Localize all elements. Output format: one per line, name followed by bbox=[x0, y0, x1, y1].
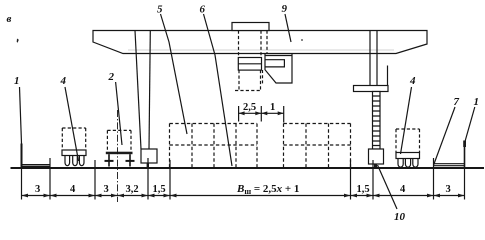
left leg bbox=[135, 31, 141, 150]
trolley dashed vertical mid bbox=[260, 31, 262, 58]
svg-text:7: 7 bbox=[454, 96, 460, 108]
right container stack (dashed) bbox=[284, 124, 353, 168]
stray dot near 9 bbox=[301, 39, 303, 41]
rail wagon axles bbox=[105, 160, 114, 162]
left truck bed bbox=[62, 150, 86, 156]
svg-text:Вш = 2,5х + 1: Вш = 2,5х + 1 bbox=[236, 183, 299, 196]
svg-text:4: 4 bbox=[409, 75, 416, 87]
right leg bbox=[369, 31, 371, 86]
left leg rail stub bbox=[147, 163, 149, 168]
right leg foot block 10 bbox=[369, 149, 384, 164]
witness lines for bottom dimensions bbox=[21, 168, 23, 200]
dashed line beside hook bbox=[262, 70, 264, 84]
trolley dashed vertical left bbox=[238, 31, 240, 58]
trolley dashed vertical right bbox=[266, 31, 268, 54]
main dimension line bbox=[22, 195, 465, 197]
svg-text:4: 4 bbox=[400, 184, 406, 195]
leader line 10 bbox=[378, 165, 398, 209]
trolley cab on girder bbox=[232, 23, 269, 31]
right leg screw column with rungs bbox=[373, 92, 381, 150]
svg-text:6: 6 bbox=[200, 4, 206, 16]
svg-text:1: 1 bbox=[474, 96, 480, 108]
leader line 1 left bbox=[20, 87, 22, 144]
svg-text:1: 1 bbox=[14, 75, 20, 87]
leader line 7 bbox=[434, 107, 455, 165]
right leg cylinder line bbox=[387, 66, 389, 86]
leader line 9 bbox=[285, 14, 291, 42]
girder 9 (bridge beam outline) bbox=[93, 31, 427, 54]
hoist block upper position bbox=[238, 58, 261, 71]
leader line 4 left bbox=[65, 87, 79, 161]
svg-text:4: 4 bbox=[60, 75, 67, 87]
rail wagon posts bbox=[108, 154, 110, 166]
right truck bed bbox=[396, 153, 420, 159]
right truck 4: dashed container bbox=[396, 129, 420, 153]
dimension 2,5 and 1 witness lines bbox=[238, 106, 240, 122]
svg-text:3: 3 bbox=[35, 184, 40, 195]
rail wagon platform bbox=[106, 152, 133, 155]
right leg rail stub bbox=[374, 164, 377, 168]
leader line 1 right bbox=[465, 107, 475, 143]
left container stack (dashed) bbox=[170, 124, 258, 168]
svg-text:1,5: 1,5 bbox=[357, 184, 370, 195]
svg-text:1,5: 1,5 bbox=[153, 184, 166, 195]
svg-text:2: 2 bbox=[108, 71, 115, 83]
svg-text:3: 3 bbox=[104, 184, 109, 195]
dimension 2,5 line bbox=[239, 112, 262, 114]
leader line 4 right bbox=[401, 87, 412, 154]
leader line 5 bbox=[161, 14, 188, 134]
right road surface lines bbox=[434, 163, 465, 165]
left road surface lines bbox=[22, 164, 50, 166]
svg-text:2,5: 2,5 bbox=[243, 102, 256, 113]
svg-text:4: 4 bbox=[70, 184, 76, 195]
svg-text:5: 5 bbox=[157, 4, 163, 16]
svg-text:9: 9 bbox=[282, 3, 288, 15]
dimension 1 line bbox=[261, 112, 283, 114]
left leg foot block bbox=[141, 149, 157, 163]
left truck 4: dashed container bbox=[62, 128, 85, 150]
right truck wheels bbox=[398, 159, 403, 168]
svg-text:10: 10 bbox=[394, 211, 406, 223]
left truck wheels bbox=[65, 156, 70, 166]
hook block lower position bbox=[265, 54, 292, 84]
rail wagon 2: dashed container bbox=[107, 130, 131, 151]
dimension arrowheads bbox=[22, 194, 465, 198]
svg-text:в: в bbox=[7, 13, 12, 25]
left fence 1 bbox=[21, 144, 23, 169]
track centerline (dash-dot) bbox=[117, 110, 119, 202]
dashed container in raised position bbox=[238, 70, 240, 90]
arrows for 2,5 / 1 bbox=[239, 111, 284, 115]
girder lower chord thin line bbox=[128, 49, 394, 51]
right leg cross plate bbox=[354, 86, 389, 92]
ground line bbox=[11, 167, 485, 169]
svg-text:3,2: 3,2 bbox=[126, 184, 139, 195]
svg-text:1: 1 bbox=[270, 102, 275, 113]
stray speck left bbox=[17, 39, 19, 43]
right fence 7 bbox=[464, 141, 466, 168]
leader line 2 bbox=[116, 82, 122, 145]
leader line 6 bbox=[204, 14, 233, 166]
svg-text:3: 3 bbox=[446, 184, 451, 195]
